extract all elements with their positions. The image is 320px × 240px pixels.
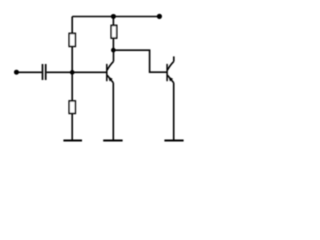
wire R1 bottom through input node to R3 top bbox=[71, 46, 73, 101]
resistor R3 bbox=[69, 101, 75, 114]
node rail junction dot bbox=[111, 14, 116, 19]
wire Q2 emitter down to ground bbox=[173, 83, 175, 141]
wire capacitor to Q1 base bbox=[47, 71, 107, 73]
transistor Q1 bbox=[107, 61, 114, 82]
ground G1 bbox=[63, 140, 82, 142]
resistor R2 bbox=[111, 25, 117, 38]
wire rail corner down to R1 top bbox=[71, 17, 73, 34]
ground G3 bbox=[164, 140, 183, 142]
node mid junction dot bbox=[111, 48, 116, 53]
node input junction dot bbox=[70, 70, 75, 75]
ground G2 bbox=[103, 140, 122, 142]
wire rail junction down to R2 top bbox=[112, 17, 114, 26]
wire input terminal to capacitor bbox=[16, 71, 41, 73]
wire mid junction to Q2 base bbox=[113, 50, 166, 72]
wire Q2 collector stub bbox=[173, 56, 175, 61]
transistor Q2 bbox=[167, 61, 174, 82]
resistor R1 bbox=[69, 33, 75, 46]
node input terminal bbox=[14, 70, 19, 75]
node supply terminal bbox=[157, 14, 162, 19]
wire Q1 collector up to mid junction bbox=[113, 50, 115, 61]
capacitor C1 bbox=[43, 64, 46, 80]
wire Q1 emitter down to ground bbox=[112, 83, 114, 141]
wire R2 bottom to mid junction bbox=[112, 38, 114, 50]
wire R3 bottom to ground bbox=[71, 113, 73, 140]
wire VCC rail bbox=[72, 16, 159, 18]
